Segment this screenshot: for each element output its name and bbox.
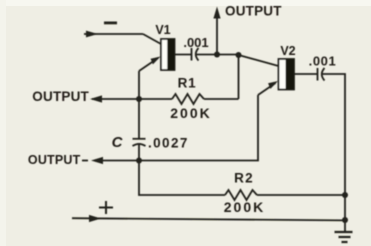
svg-text:200K: 200K [224, 199, 265, 215]
svg-text:OUTPUT: OUTPUT [225, 4, 282, 19]
wire V1 emitter with arrow [139, 57, 161, 72]
wire V2 output [294, 73, 317, 75]
wire node down to R1 [238, 55, 240, 99]
capacitor .001 (C at V1 output) [192, 48, 199, 61]
wire to top output arrow [213, 7, 220, 55]
svg-text:R1: R1 [178, 76, 197, 91]
wire left bus down to capacitor C [138, 99, 140, 139]
resistor R2 [225, 190, 345, 200]
input arrow (plus input) [72, 215, 345, 222]
wire left bus down to R2 [139, 161, 225, 196]
wire node to V2 upper contact [239, 55, 279, 66]
junction (V2 grid node) [236, 52, 242, 58]
junction (left bus / R1) [136, 96, 142, 102]
wire cap to right bus [322, 74, 345, 232]
capacitor .001 (V2 output) [318, 68, 325, 81]
svg-text:200K: 200K [170, 105, 211, 121]
svg-text:OUTPUT: OUTPUT [28, 153, 81, 167]
svg-text:V1: V1 [155, 23, 170, 37]
wire V1 collector [175, 54, 192, 56]
svg-text:R2: R2 [234, 171, 254, 186]
transistor V2 [279, 59, 295, 90]
svg-text:.001: .001 [309, 54, 337, 69]
capacitor C .0027 [133, 139, 146, 146]
resistor R1 [139, 94, 239, 104]
junction (left bus / lower output) [136, 158, 142, 164]
wire to upper-left output arrow [90, 95, 139, 102]
input arrow (minus input) [84, 31, 161, 44]
wire cap to node [196, 54, 238, 56]
svg-text:.001: .001 [183, 35, 208, 50]
minus sign [104, 22, 117, 25]
wire to lower-left output arrow [82, 157, 139, 164]
junction (R2 / right bus) [342, 192, 348, 198]
svg-text:OUTPUT: OUTPUT [32, 89, 89, 104]
svg-text:V2: V2 [280, 44, 295, 58]
wire capacitor C to lower junction [138, 145, 140, 161]
transistor V1 [161, 39, 175, 70]
junction (plus line / right bus) [342, 217, 348, 223]
ground [335, 232, 353, 242]
junction (top output node) [214, 52, 220, 58]
wire lower output line to V2 emitter [139, 95, 258, 161]
plus sign [99, 201, 113, 214]
wire V2 emitter with arrow [258, 81, 278, 95]
svg-text:.0027: .0027 [148, 136, 189, 151]
wire V1 emitter to left bus [138, 71, 140, 99]
svg-text:C: C [112, 134, 124, 151]
